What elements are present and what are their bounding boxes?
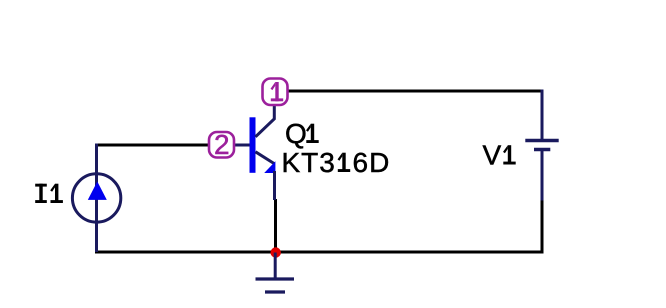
bottom lead xyxy=(541,150,544,201)
svg-text:Q: Q xyxy=(285,118,307,149)
emitter diagonal xyxy=(256,152,275,164)
emitter arrowhead xyxy=(264,161,275,173)
wire: bottom net horizontal xyxy=(95,251,544,254)
svg-text:2: 2 xyxy=(214,129,230,160)
collector diagonal xyxy=(256,106,275,137)
base bar xyxy=(250,117,256,173)
svg-text:6D: 6D xyxy=(353,147,391,178)
base lead xyxy=(233,144,250,147)
ground xyxy=(256,253,295,293)
wire: base net horizontal (left wire to pin 2) xyxy=(95,144,209,147)
emitter lead vertical xyxy=(273,171,276,200)
label KT316D xyxy=(282,147,391,178)
label I1 xyxy=(35,184,63,203)
wire: top net horizontal (pin 1 to V1) xyxy=(288,90,544,93)
wire: right vertical lower (V1 to bottom net) xyxy=(541,200,544,254)
battery V1 xyxy=(525,90,558,201)
transistor Q1 xyxy=(233,106,275,201)
short plate xyxy=(534,148,550,151)
long plate xyxy=(525,139,558,142)
pin number 2 (Q1 base node) xyxy=(209,129,234,160)
pin number 1 (Q1 collector node) xyxy=(263,79,288,106)
junction dot xyxy=(271,247,281,257)
label V1 xyxy=(483,140,516,171)
current source I1 xyxy=(72,144,120,253)
svg-text:V: V xyxy=(483,140,502,171)
svg-text:KT3: KT3 xyxy=(282,147,336,178)
label Q1 xyxy=(285,118,319,149)
wire: emitter vertical (Q1 emitter to junction) xyxy=(274,199,277,252)
top lead xyxy=(541,90,544,141)
